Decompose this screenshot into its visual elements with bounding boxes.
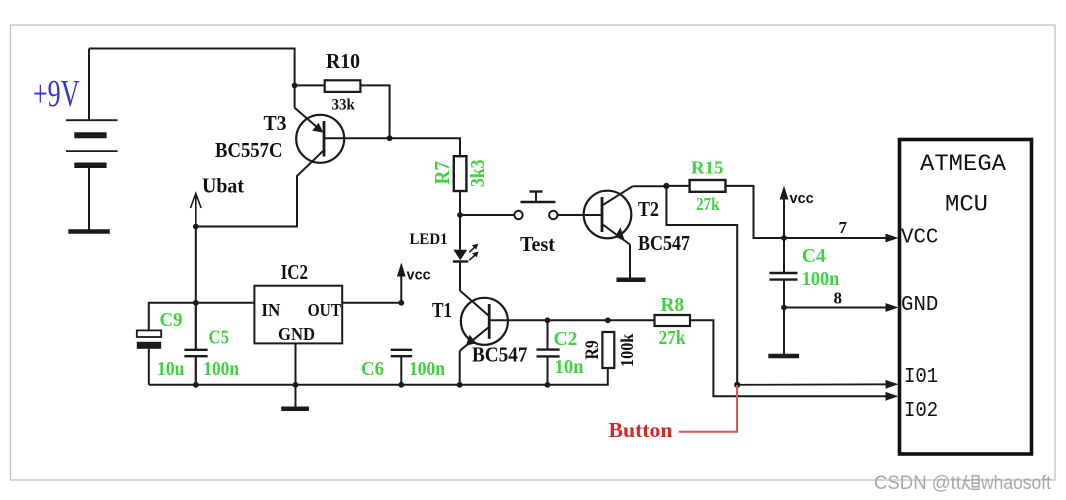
resistor R9 [602, 332, 614, 368]
wire OUT to vcc node [342, 302, 401, 304]
wire IO1 to MCU [737, 383, 885, 386]
wire top rail [89, 49, 295, 86]
svg-text:T1: T1 [432, 298, 452, 322]
node junction C2 bottom rail [545, 382, 551, 388]
capacitor C9 (electrolytic) [137, 330, 161, 337]
svg-text:R7: R7 [430, 161, 454, 185]
pushbutton Test [460, 192, 602, 220]
svg-text:GND: GND [278, 324, 315, 344]
wire T1 base rail [489, 319, 654, 321]
svg-text:vcc: vcc [407, 268, 431, 284]
pin arrow IO1 [886, 380, 899, 389]
node junction C5 top [193, 300, 199, 306]
svg-text:BC547: BC547 [472, 343, 528, 367]
resistor R7 [454, 156, 467, 191]
svg-text:C9: C9 [160, 309, 183, 331]
node Ubat arrow [191, 194, 202, 227]
transistor T3 BC557C [196, 85, 390, 226]
svg-text:MCU: MCU [945, 192, 988, 218]
node junction C4/GND line [781, 305, 787, 311]
svg-text:+9V: +9V [33, 73, 80, 115]
svg-text:C5: C5 [209, 327, 230, 349]
svg-text:8: 8 [834, 289, 843, 308]
wire GND line to MCU [784, 307, 886, 309]
capacitor C2 [537, 320, 560, 385]
svg-text:R9: R9 [582, 340, 603, 359]
svg-text:R8: R8 [661, 294, 685, 316]
svg-text:100n: 100n [203, 358, 239, 380]
svg-text:vcc: vcc [790, 191, 814, 207]
wire C9 bottom [148, 349, 150, 385]
svg-text:LED1: LED1 [410, 231, 448, 248]
svg-text:whaosoft: whaosoft [980, 473, 1052, 494]
node junction vcc/VCC line [781, 235, 787, 241]
MCU U1 ATMEGA box [900, 140, 1032, 455]
node Ubat junction [193, 224, 199, 230]
wire R15 left lead [666, 185, 689, 187]
svg-text:BC547: BC547 [638, 231, 690, 255]
svg-text:ATMEGA: ATMEGA [920, 151, 1006, 177]
wire R15 right to VCC line [726, 186, 886, 238]
svg-text:VCC: VCC [901, 226, 938, 250]
node junction rail C5 [193, 382, 199, 388]
node junction rail C6 [398, 382, 404, 388]
wire R8 right to IO2 [690, 320, 886, 396]
node junction IO1 [734, 382, 740, 388]
ground (IC2) [281, 406, 309, 411]
wire Button (red) [679, 385, 737, 432]
capacitor C5 [184, 303, 207, 385]
wire R10 right lead down to base node [360, 85, 389, 138]
wire T2 collector to junction [633, 185, 667, 187]
svg-text:27k: 27k [659, 327, 687, 349]
wire base node to R7 [390, 138, 460, 156]
wire IN rail (C9 to IC2) [149, 303, 255, 330]
svg-text:100n: 100n [409, 358, 445, 380]
node junction R9 top [605, 317, 611, 323]
resistor R8 [655, 315, 691, 326]
wire R7 bottom lead [459, 191, 461, 215]
wire IC2 GND down [295, 343, 297, 406]
transistor T1 BC547 [460, 290, 508, 384]
power vcc arrow (C6) [397, 263, 406, 303]
svg-text:10u: 10u [157, 358, 185, 380]
resistor R15 [690, 180, 726, 192]
pin arrow GND [886, 303, 899, 312]
svg-text:IN: IN [261, 300, 280, 320]
wire R10 left lead [295, 84, 325, 86]
ground (battery) [68, 229, 110, 234]
svg-text:CSDN @tt: CSDN @tt [874, 473, 962, 494]
svg-text:BC557C: BC557C [215, 138, 283, 162]
node junction T1 emitter rail [457, 382, 463, 388]
svg-text:I01: I01 [904, 365, 938, 389]
IC2 box [254, 286, 342, 344]
svg-text:GND: GND [901, 293, 938, 317]
wire T2 junction down and across to IO1 [666, 186, 737, 385]
svg-text:T2: T2 [638, 197, 659, 221]
capacitor C4 [769, 273, 797, 354]
svg-text:I02: I02 [904, 399, 938, 423]
wire ground rail [149, 368, 608, 385]
wire Ubat node down to IN rail [195, 227, 197, 303]
svg-text:Test: Test [520, 232, 555, 256]
svg-text:C2: C2 [554, 328, 578, 350]
node junction LED/button [457, 212, 463, 218]
node junction C2 top [545, 317, 551, 323]
ground (T2 emitter) [617, 278, 646, 283]
svg-text:IC2: IC2 [281, 260, 309, 284]
svg-text:3k3: 3k3 [467, 160, 489, 188]
capacitor C6 [391, 350, 413, 385]
node junction OUT/C6 [398, 300, 404, 306]
LED LED1 [453, 215, 479, 290]
svg-text:C4: C4 [802, 245, 826, 267]
transistor T2 BC547 [584, 186, 633, 277]
svg-text:OUT: OUT [308, 300, 342, 320]
svg-text:Ubat: Ubat [202, 174, 244, 198]
node junction T2 collector [663, 183, 669, 189]
power vcc arrow (C4) [780, 186, 789, 274]
node junction GND rail [293, 382, 299, 388]
resistor R10 [325, 80, 361, 92]
svg-text:R10: R10 [326, 49, 360, 73]
svg-text:C6: C6 [361, 358, 384, 380]
watermark [874, 473, 1052, 494]
svg-text:R15: R15 [691, 158, 724, 178]
node junction T3 base [387, 135, 393, 141]
pin arrow VCC [886, 234, 899, 243]
svg-text:Button: Button [609, 418, 673, 442]
svg-text:7: 7 [839, 218, 848, 237]
node junction R10 left [292, 83, 298, 89]
svg-text:33k: 33k [332, 97, 356, 114]
svg-text:T3: T3 [264, 111, 287, 135]
svg-text:100k: 100k [617, 334, 637, 367]
battery B1 +9V [66, 49, 118, 232]
pin arrow IO2 [886, 392, 899, 401]
ground (C4) [768, 354, 799, 359]
svg-text:27k: 27k [696, 194, 720, 214]
svg-text:100n: 100n [802, 268, 840, 290]
svg-text:10n: 10n [555, 356, 584, 378]
